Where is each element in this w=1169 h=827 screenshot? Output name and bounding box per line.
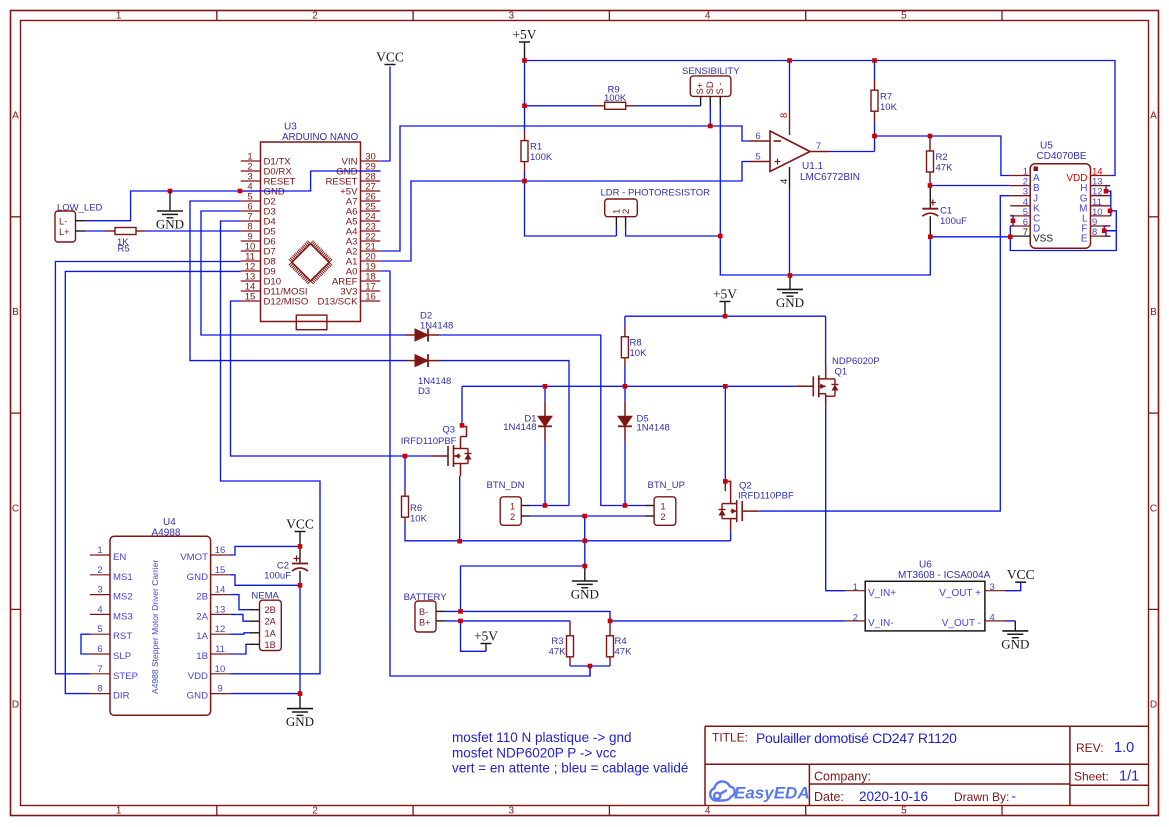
- svg-text:D: D: [1150, 700, 1157, 711]
- wire A0 pin19 to R3-R4 divider: [381, 271, 591, 676]
- op-amp U1.1 LMC6772BIN: [770, 131, 810, 172]
- svg-text:U5: U5: [1040, 141, 1053, 152]
- svg-text:13: 13: [215, 604, 226, 615]
- svg-text:IRFD110PBF: IRFD110PBF: [738, 491, 794, 502]
- svg-text:U4: U4: [163, 517, 176, 528]
- wire Q2 drain drop: [724, 386, 726, 481]
- wire diode D5 bottom: [624, 441, 626, 505]
- wire R9 right to SENSIBILITY S+: [636, 105, 701, 107]
- svg-text:MS1: MS1: [113, 572, 133, 583]
- svg-text:ARDUINO NANO: ARDUINO NANO: [282, 132, 359, 143]
- wire U4 2A to NEMA: [230, 614, 248, 621]
- wire LDR pins down: [615, 227, 617, 237]
- wire R3 R4 bottoms: [570, 665, 610, 667]
- U6 pin 2 V_IN-: [845, 620, 865, 622]
- svg-text:8: 8: [779, 113, 790, 118]
- svg-text:D3: D3: [418, 386, 430, 397]
- svg-text:LDR - PHOTORESISTOR: LDR - PHOTORESISTOR: [601, 188, 711, 199]
- wire GND rail to GND symbol node: [584, 541, 586, 566]
- svg-text:3: 3: [990, 582, 995, 593]
- svg-text:47K: 47K: [549, 647, 567, 658]
- wire op-amp output to R7 node: [830, 151, 875, 153]
- svg-text:3: 3: [509, 806, 515, 817]
- U4 pin 16 VMOT: [211, 554, 231, 556]
- wire R6 bottom to GND rail: [405, 524, 731, 541]
- U3 pin 21 A2: [361, 250, 381, 252]
- svg-text:D13/SCK: D13/SCK: [318, 296, 359, 307]
- wire D9 pin12 to U4 DIR: [65, 271, 240, 693]
- U4 pin 9 GND: [211, 693, 231, 695]
- U3 pin 4 GND: [241, 190, 261, 192]
- svg-text:E: E: [1081, 234, 1088, 245]
- svg-text:16: 16: [365, 292, 376, 303]
- svg-text:100uF: 100uF: [940, 216, 967, 227]
- wire battery plus to R3 top: [446, 620, 570, 622]
- wire Q3 drain drop: [461, 386, 463, 425]
- svg-text:2: 2: [312, 11, 318, 22]
- svg-text:2: 2: [661, 512, 666, 522]
- U3 pin 2 D0/RX: [241, 170, 261, 172]
- U5 pin 7 VSS: [1010, 235, 1030, 237]
- svg-text:VSS: VSS: [1033, 234, 1053, 245]
- wire D12 pin15 to Q3 gate: [231, 301, 432, 456]
- svg-text:1: 1: [116, 11, 122, 22]
- wire BTN pin2 down to GND rail: [584, 516, 586, 541]
- U4 pin 12 1A: [211, 633, 231, 635]
- svg-text:GND: GND: [187, 691, 208, 702]
- U3 pin 12 D9: [241, 270, 261, 272]
- wire SENSIBILITY S- down to LDR pin2 node: [719, 106, 721, 236]
- wire R7 bottom node vertical: [874, 122, 876, 152]
- wire +5V mid stem: [724, 302, 726, 317]
- svg-text:1N4148: 1N4148: [637, 423, 670, 434]
- U3 pin 5 D2: [241, 200, 261, 202]
- svg-text:2B: 2B: [265, 605, 276, 615]
- svg-text:NDP6020P: NDP6020P: [832, 356, 880, 367]
- wire R7 node to R2 top to U5 pin1 A: [875, 136, 1011, 176]
- wire diode D3 cathode to BTN_DN pin1: [439, 361, 569, 506]
- svg-text:B: B: [1150, 307, 1157, 318]
- U3 pin 7 D4: [241, 220, 261, 222]
- svg-text:VDD: VDD: [188, 671, 208, 682]
- wire R9 left lead node: [525, 105, 595, 107]
- U6 pin 1 V_IN+: [845, 590, 865, 592]
- svg-text:7: 7: [816, 141, 821, 152]
- U1 pin7 stub output: [810, 151, 830, 153]
- svg-text:C1: C1: [940, 206, 952, 217]
- wire R1 node down to LDR pin1: [525, 181, 617, 236]
- wire U5 pin9 tie: [1104, 226, 1110, 231]
- U3 pin 8 D5: [241, 230, 261, 232]
- resistor R3 47K: [569, 621, 571, 636]
- wire U5 pin13-pin12 tie: [1106, 186, 1111, 196]
- svg-text:vert = en attente ; bleu = cab: vert = en attente ; bleu = cablage valid…: [452, 761, 688, 776]
- svg-text:U6: U6: [919, 560, 932, 571]
- svg-text:1: 1: [97, 545, 102, 556]
- U4 pin 2 MS1: [90, 574, 110, 576]
- resistor R9 100K: [594, 105, 605, 107]
- svg-text:Q1: Q1: [835, 367, 848, 378]
- U1 pin6 stub: [750, 140, 770, 142]
- wire op-amp pin4 to GND: [789, 188, 791, 275]
- wire +5V to R9 row: [524, 61, 526, 106]
- NEMA pin 2B: [249, 609, 260, 611]
- ground GND at U6 V_OUT-: [1014, 621, 1016, 631]
- svg-text:R3: R3: [551, 636, 563, 647]
- svg-text:7: 7: [97, 664, 102, 675]
- wire divider mid down to A0 row: [589, 666, 591, 676]
- ground GND at U3 pin4 net: [168, 189, 173, 194]
- svg-text:5: 5: [97, 624, 102, 635]
- svg-text:R7: R7: [880, 92, 892, 103]
- svg-text:1: 1: [853, 582, 858, 593]
- svg-text:CD4070BE: CD4070BE: [1037, 151, 1087, 162]
- U3 pin 28 RESET: [361, 180, 381, 182]
- svg-text:RST: RST: [113, 631, 132, 642]
- svg-text:STEP: STEP: [113, 671, 138, 682]
- svg-text:A: A: [12, 111, 19, 122]
- wire R8 top to +5V mid rail: [624, 316, 626, 327]
- U3 pin 25 A6: [361, 210, 381, 212]
- Q2 body diode: [722, 503, 731, 505]
- svg-text:10K: 10K: [880, 102, 898, 113]
- svg-text:R6: R6: [410, 503, 422, 514]
- wire C1 bottom to U5 VSS pin7: [930, 236, 1010, 238]
- svg-text:R2: R2: [936, 152, 948, 163]
- wire LOW_LED L- to GND net: [85, 191, 241, 221]
- diode D3 1N4148: [405, 360, 415, 362]
- U3 USB connector icon: [296, 315, 327, 321]
- svg-text:R1: R1: [530, 142, 542, 153]
- svg-text:V_OUT -: V_OUT -: [942, 618, 981, 629]
- U4 pin 3 MS2: [90, 594, 110, 596]
- svg-text:REV:: REV:: [1076, 741, 1104, 755]
- svg-text:14: 14: [215, 585, 226, 596]
- resistor R6 10K: [404, 489, 406, 497]
- svg-text:4: 4: [705, 11, 711, 22]
- U3 pin 22 A3: [361, 240, 381, 242]
- wire U4 1A to NEMA: [230, 633, 248, 634]
- svg-text:SLP: SLP: [113, 651, 131, 662]
- U4 pin 10 VDD: [211, 673, 231, 675]
- svg-text:47K: 47K: [936, 163, 954, 174]
- svg-text:VCC: VCC: [376, 50, 404, 65]
- svg-text:B: B: [12, 307, 19, 318]
- U5 pin 11 M: [1091, 205, 1111, 207]
- svg-text:EasyEDA: EasyEDA: [734, 784, 810, 803]
- wire VCC flag stem: [299, 532, 301, 547]
- svg-text:100uF: 100uF: [264, 571, 291, 582]
- svg-text:MS3: MS3: [113, 611, 133, 622]
- title block: [705, 726, 1149, 805]
- svg-text:L-: L-: [59, 217, 67, 227]
- NEMA pin 1A: [249, 632, 260, 634]
- U4 pin 11 1B: [211, 653, 231, 655]
- svg-text:4: 4: [990, 612, 995, 623]
- svg-text:1A: 1A: [265, 628, 277, 638]
- svg-text:VCC: VCC: [286, 517, 314, 532]
- junction dots: [238, 189, 243, 194]
- U3 pin 29 GND: [361, 170, 381, 172]
- wire Q1 drain to U6 V_IN+: [826, 406, 845, 590]
- wire R6 top node: [404, 456, 406, 489]
- U3 pin 20 A1: [361, 260, 381, 262]
- Q2 drain hook: [730, 491, 732, 504]
- U3 pin 1 D1/TX: [241, 160, 261, 162]
- wire battery minus to R4 top: [446, 611, 610, 621]
- wire U4 2B to NEMA: [230, 595, 248, 610]
- ground GND under op-amp: [789, 275, 791, 289]
- wire U5 right chain wrap to VSS: [1010, 231, 1116, 251]
- svg-text:10K: 10K: [630, 348, 648, 359]
- U5 pin 13 H: [1091, 185, 1111, 187]
- capacitor C1 100uF: [929, 186, 931, 209]
- wire U5 pin8 tie: [1106, 231, 1116, 237]
- svg-text:GND: GND: [776, 295, 804, 310]
- svg-text:1N4148: 1N4148: [420, 321, 453, 332]
- svg-text:BTN_UP: BTN_UP: [648, 480, 685, 491]
- svg-text:1A: 1A: [196, 631, 208, 642]
- wire SENSIBILITY SD down to A2 net: [709, 106, 711, 126]
- svg-text:B-: B-: [419, 607, 428, 617]
- svg-text:6: 6: [755, 131, 760, 142]
- resistor R8 10K: [624, 327, 626, 337]
- svg-text:VCC: VCC: [1007, 567, 1035, 582]
- wire diode D5 top: [624, 386, 626, 401]
- svg-text:Date:: Date:: [814, 790, 844, 804]
- svg-text:U1.1: U1.1: [802, 161, 824, 172]
- wire U5 pin3 J to Q2 gate: [760, 196, 1011, 511]
- U3 pin 19 A0: [361, 270, 381, 272]
- svg-text:5: 5: [901, 806, 907, 817]
- U3 pin 27 +5V: [361, 190, 381, 192]
- svg-text:2B: 2B: [196, 592, 208, 603]
- U3 pin 6 D3: [241, 210, 261, 212]
- U4 pin 15 GND: [211, 574, 231, 576]
- U5 pin 3 J: [1010, 195, 1030, 197]
- svg-text:9: 9: [217, 684, 222, 695]
- U3 pin 3 RESET: [241, 180, 261, 182]
- wire U4 GND15 to C2 bottom node: [230, 575, 300, 586]
- U3 pin 9 D6: [241, 240, 261, 242]
- wire R8 bottom to gate rail: [624, 367, 626, 387]
- resistor R2 47K: [929, 136, 931, 151]
- svg-text:V_OUT +: V_OUT +: [939, 588, 981, 599]
- resistor R5 1K: [105, 230, 115, 232]
- U3 pin 11 D8: [241, 260, 261, 262]
- svg-text:8: 8: [1092, 227, 1097, 238]
- ground GND at U4 pin9: [299, 694, 301, 709]
- resistor R1 100K: [524, 131, 526, 141]
- ground GND center bottom: [584, 566, 586, 581]
- U5 pin 4 K: [1010, 205, 1030, 207]
- U3 pin 15 D12/MISO: [241, 300, 261, 302]
- svg-text:2: 2: [97, 565, 102, 576]
- wire D4 pin7 to U4 VDD: [221, 221, 321, 674]
- U3 pin 24 A5: [361, 220, 381, 222]
- U4 pin 1 EN: [90, 554, 110, 556]
- U6 pin 3 V_OUT+: [985, 590, 1005, 592]
- U4 pin 13 2A: [211, 613, 231, 615]
- svg-text:1: 1: [510, 501, 515, 511]
- wire Q2 source down: [730, 531, 732, 540]
- svg-text:4: 4: [779, 179, 790, 184]
- svg-text:10K: 10K: [410, 514, 428, 525]
- svg-text:16: 16: [215, 545, 226, 556]
- U4 pin 6 SLP: [90, 653, 110, 655]
- svg-text:R5: R5: [118, 244, 130, 255]
- U4 pin 4 MS3: [90, 613, 110, 615]
- svg-text:GND: GND: [286, 714, 314, 729]
- svg-text:GND: GND: [571, 587, 599, 602]
- U1 pin5 stub: [750, 161, 770, 163]
- wire op-amp pin8 to +5V rail: [789, 61, 791, 113]
- svg-text:1B: 1B: [196, 651, 208, 662]
- svg-text:4: 4: [705, 806, 711, 817]
- Q1 body diode: [826, 378, 835, 380]
- svg-text:7: 7: [1023, 227, 1028, 238]
- svg-text:D: D: [12, 700, 19, 711]
- wire A1 pin20 to R1 bottom node and op-amp IN+: [381, 162, 751, 262]
- svg-text:LMC6772BIN: LMC6772BIN: [800, 172, 860, 183]
- wire D8 pin11 to U4 STEP: [55, 262, 240, 674]
- svg-text:2: 2: [510, 512, 515, 522]
- svg-text:2: 2: [312, 806, 318, 817]
- U4 pin 8 DIR: [90, 693, 110, 695]
- svg-text:1N4148: 1N4148: [503, 422, 536, 433]
- svg-text:2: 2: [853, 612, 858, 623]
- svg-text:5: 5: [755, 152, 760, 163]
- NEMA pin 2A: [249, 620, 260, 622]
- svg-text:Drawn By:: Drawn By:: [954, 790, 1009, 804]
- svg-text:4: 4: [97, 604, 102, 615]
- svg-text:10: 10: [215, 664, 226, 675]
- svg-text:BTN_DN: BTN_DN: [487, 480, 525, 491]
- wire GND symbol node to battery minus: [461, 566, 585, 611]
- wire gate rail y=386 from Q3 drain to Q1 gate: [462, 385, 796, 387]
- wire +5V flag stem bottom: [485, 644, 487, 652]
- U5 pin 8 E: [1091, 235, 1111, 237]
- svg-text:1/1: 1/1: [1119, 769, 1139, 785]
- U4 pin 5 RST: [90, 633, 110, 635]
- wire +5V rail to U5 VDD pin14: [525, 61, 1116, 176]
- wire R1 top: [524, 106, 526, 131]
- U4 pin 14 2B: [211, 594, 231, 596]
- wire battery plus to +5V flag: [461, 621, 487, 651]
- svg-text:C: C: [12, 503, 19, 514]
- svg-text:47K: 47K: [615, 647, 633, 658]
- resistor R4 47K: [609, 621, 611, 636]
- EasyEDA logo: [710, 781, 735, 800]
- wire U6 V_OUT- to GND: [1005, 620, 1015, 622]
- wire U4 RST-SLP loop: [81, 634, 90, 654]
- svg-text:100K: 100K: [530, 152, 553, 163]
- wire U5 pin6 to VSS net: [1009, 226, 1011, 237]
- wire R5 to D5 pin8: [85, 230, 105, 232]
- U5 pin 9 F: [1091, 225, 1111, 227]
- U3 pin 23 A4: [361, 230, 381, 232]
- wire BTN pin2 row: [530, 515, 644, 517]
- U3 pin 16 D13/SCK: [361, 300, 381, 302]
- U3 pin 14 D11/MOSI: [241, 290, 261, 292]
- U3 pin 10 D7: [241, 250, 261, 252]
- svg-text:GND: GND: [187, 572, 208, 583]
- U3 pin 13 D10: [241, 280, 261, 282]
- wire R4 node to U6 V_IN-: [610, 620, 845, 622]
- U5 pin 1 A: [1010, 175, 1030, 177]
- U1 pin8 stub V+: [789, 112, 791, 135]
- resistor R7 10K: [874, 80, 876, 90]
- svg-text:Sheet:: Sheet:: [1074, 770, 1109, 784]
- NEMA pin 1B: [249, 643, 260, 645]
- wire U4 1B to NEMA: [230, 644, 248, 654]
- svg-text:1: 1: [661, 501, 666, 511]
- wire diode D2 cathode to BTN_UP pin1: [439, 335, 644, 506]
- wire GND net from LDR node to C1 bottom: [720, 236, 930, 275]
- svg-text:MS2: MS2: [113, 592, 133, 603]
- svg-text:2020-10-16: 2020-10-16: [859, 789, 928, 804]
- wire R1 bottom node: [524, 172, 526, 181]
- wire R2 bottom to U5 pin2 B: [930, 185, 1010, 187]
- svg-text:3: 3: [97, 585, 102, 596]
- U3 pin 30 VIN: [361, 160, 381, 162]
- U5 pin 6 D: [1010, 225, 1030, 227]
- U5 pin 12 G: [1091, 195, 1111, 197]
- svg-text:Poulailler domotisé CD247 R112: Poulailler domotisé CD247 R1120: [756, 730, 957, 746]
- wire U5 pin10 tie: [1109, 211, 1112, 216]
- svg-text:DIR: DIR: [113, 691, 130, 702]
- svg-text:IRFD110PBF: IRFD110PBF: [401, 436, 457, 447]
- svg-text:+5V: +5V: [474, 629, 498, 644]
- svg-text:11: 11: [215, 644, 225, 655]
- svg-text:100K: 100K: [604, 93, 627, 104]
- wire D3 pin6 to diode D2 row: [201, 211, 405, 335]
- wire D2 pin5 to diode D3 row: [190, 201, 405, 361]
- svg-text:1.0: 1.0: [1114, 740, 1134, 756]
- wire C2 bottom node down to GND9 node: [299, 585, 301, 693]
- svg-text:GND: GND: [1001, 636, 1029, 651]
- svg-text:+5V: +5V: [713, 287, 737, 302]
- svg-text:R8: R8: [630, 338, 642, 349]
- svg-text:GND: GND: [156, 217, 184, 232]
- wire A2 pin21 to SENSIBILITY SD and op-amp IN-: [381, 126, 751, 251]
- svg-text:12: 12: [215, 624, 226, 635]
- U4 pin 7 STEP: [90, 673, 110, 675]
- svg-text:C: C: [1150, 503, 1157, 514]
- svg-text:V_IN+: V_IN+: [868, 588, 896, 599]
- svg-text:D12/MISO: D12/MISO: [264, 296, 309, 307]
- svg-text:3: 3: [509, 11, 515, 22]
- svg-text:5: 5: [901, 11, 907, 22]
- svg-text:L+: L+: [59, 227, 69, 237]
- svg-text:A4988 Stepper Motor Driver Car: A4988 Stepper Motor Driver Carrier: [150, 560, 160, 694]
- svg-text:Q3: Q3: [442, 425, 455, 436]
- svg-text:2A: 2A: [265, 617, 277, 627]
- svg-text:1B: 1B: [265, 640, 276, 650]
- svg-text:A: A: [1150, 111, 1157, 122]
- svg-text:6: 6: [97, 644, 102, 655]
- svg-text:B+: B+: [419, 618, 431, 628]
- svg-text:2: 2: [621, 209, 632, 214]
- svg-text:EN: EN: [113, 552, 126, 563]
- U5 pin 5 C: [1010, 215, 1030, 217]
- U6 pin 4 V_OUT-: [985, 620, 1005, 622]
- wire Q3 source down to GND rail: [459, 476, 461, 541]
- wire U4 VMOT to VCC node: [230, 546, 300, 555]
- wire VIN pin30 to VCC: [381, 67, 391, 162]
- wire diode D1 top: [544, 386, 546, 401]
- wire diode D1 bottom to BTN_DN pin1: [544, 441, 546, 505]
